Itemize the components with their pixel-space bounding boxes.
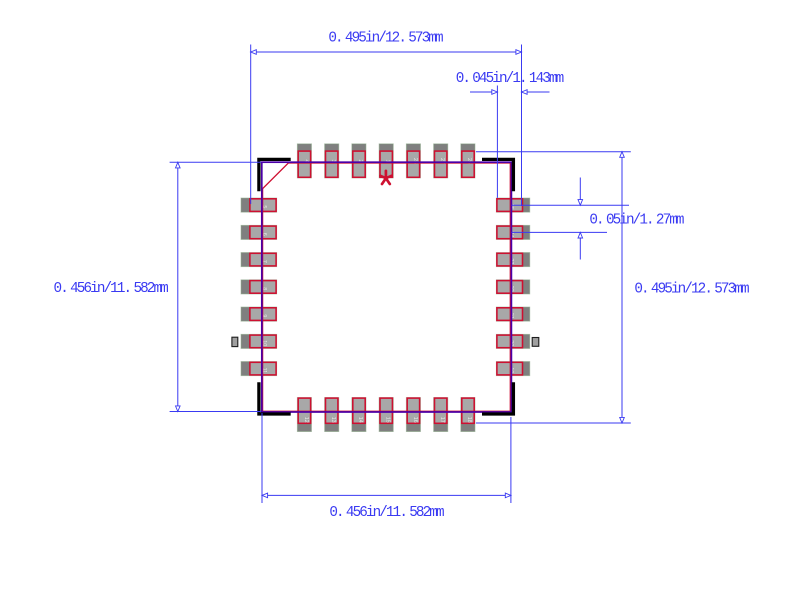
svg-text:0.495in/12.573mm: 0.495in/12.573mm	[634, 281, 749, 297]
svg-text:18: 18	[466, 417, 472, 423]
svg-text:0.045in/1.143mm: 0.045in/1.143mm	[456, 71, 564, 87]
svg-text:0.495in/12.573mm: 0.495in/12.573mm	[328, 31, 443, 47]
svg-text:0.456in/11.582mm: 0.456in/11.582mm	[329, 505, 444, 521]
svg-text:13: 13	[330, 417, 336, 423]
svg-text:12: 12	[303, 417, 309, 423]
svg-text:15: 15	[385, 417, 391, 423]
svg-text:17: 17	[439, 417, 445, 423]
svg-text:0.456in/11.582mm: 0.456in/11.582mm	[54, 281, 169, 297]
svg-text:14: 14	[357, 417, 363, 423]
svg-text:16: 16	[412, 417, 418, 423]
